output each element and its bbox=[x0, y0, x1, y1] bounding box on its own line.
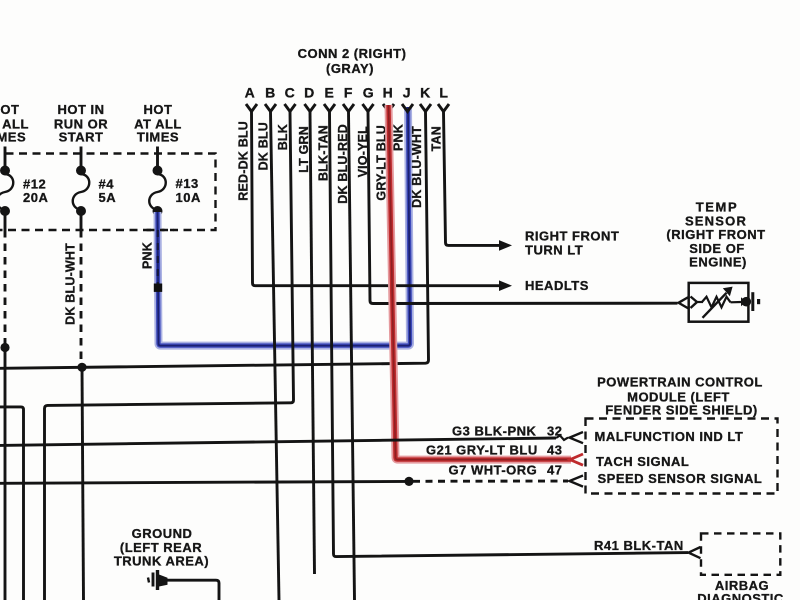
svg-text:TURN LT: TURN LT bbox=[525, 243, 583, 258]
label PNK (rotated, at fuse F13 output) bbox=[141, 242, 155, 269]
wire pin B DK BLU down to bottom bbox=[271, 112, 280, 600]
pin letter E bbox=[325, 85, 335, 101]
pin K connector fork bbox=[420, 104, 431, 112]
wire from left at y407 bending down bbox=[0, 407, 24, 600]
label SPEED SENSOR SIGNAL bbox=[598, 471, 763, 486]
label G21 GRY-LT BLU bbox=[426, 443, 538, 458]
variable resistor diagonal arrow bbox=[703, 287, 733, 318]
fuse F4 symbol bbox=[73, 166, 90, 231]
wire dashed PNK under blue from fuse F13 bbox=[157, 230, 159, 286]
label HOT IN RUN OR START bbox=[54, 102, 108, 145]
label G3 BLK-PNK bbox=[452, 424, 537, 439]
fuse F12 stub above box bbox=[4, 147, 7, 167]
svg-text:K: K bbox=[420, 85, 431, 101]
label R41 BLK-TAN bbox=[594, 538, 684, 553]
svg-text:(RIGHT FRONT: (RIGHT FRONT bbox=[666, 227, 765, 242]
label DK BLU-WHT (rotated, pin K) bbox=[410, 126, 424, 208]
wire pin E BLK-TAN down to R41 feed bbox=[330, 112, 689, 557]
svg-text:HOT IN: HOT IN bbox=[57, 102, 104, 117]
svg-text:32: 32 bbox=[547, 424, 562, 439]
svg-text:START: START bbox=[59, 130, 104, 145]
svg-text:20A: 20A bbox=[23, 190, 48, 205]
pin E connector fork bbox=[324, 104, 335, 112]
fuse block dashed box bbox=[0, 154, 216, 231]
svg-text:G21 GRY-LT BLU: G21 GRY-LT BLU bbox=[426, 443, 538, 458]
pin B connector fork bbox=[265, 104, 276, 112]
connector arrow at temp sensor bbox=[679, 297, 689, 309]
connector arrow at PCM pin 47 bbox=[570, 476, 584, 487]
wire pin G VIO-YEL down then right to temp sensor bbox=[368, 112, 678, 304]
svg-text:5A: 5A bbox=[99, 190, 117, 205]
svg-text:E: E bbox=[325, 85, 335, 101]
temp sensor male pin bbox=[691, 297, 698, 309]
fuse F12 value label #12 20A bbox=[23, 177, 48, 206]
wire fuse box bottom edge over blue bbox=[147, 229, 175, 231]
junction node DK BLU-WHT bbox=[77, 363, 86, 372]
svg-text:#13: #13 bbox=[176, 176, 199, 191]
pin letter H bbox=[383, 85, 394, 101]
pin number 43 bbox=[547, 443, 562, 458]
wire pin A RED-DK BLU down to HEADLTS feed bbox=[252, 112, 500, 286]
label DK BLU (rotated, pin B) bbox=[257, 122, 271, 170]
pin letter L bbox=[439, 85, 448, 101]
wire solid from junction down to bottom bbox=[4, 348, 7, 600]
svg-text:HOT: HOT bbox=[144, 102, 173, 117]
svg-text:TRUNK AREA): TRUNK AREA) bbox=[114, 554, 209, 569]
svg-text:SPEED SENSOR SIGNAL: SPEED SENSOR SIGNAL bbox=[598, 471, 763, 486]
label GROUND (LEFT REAR TRUNK AREA) bbox=[114, 526, 209, 569]
label VIO-YEL (rotated, pin G) bbox=[356, 126, 370, 178]
svg-text:J: J bbox=[403, 85, 411, 101]
pin number 32 bbox=[547, 424, 562, 439]
fuse F4 stub above box bbox=[80, 147, 83, 167]
pin C connector fork bbox=[285, 104, 296, 112]
wire pin F DK BLU-RED down to bottom bbox=[349, 112, 355, 600]
label TAN (rotated, pin L) bbox=[430, 126, 444, 151]
label RED-DK BLU (rotated, pin A) bbox=[237, 121, 251, 201]
temp sensor internal wire right bbox=[731, 301, 742, 303]
fuse F13 value label #13 10A bbox=[176, 176, 201, 205]
pin letter D bbox=[304, 85, 315, 101]
airbag diagnostic dashed box bbox=[701, 533, 780, 574]
svg-text:10A: 10A bbox=[176, 190, 201, 205]
label TEMP SENSOR (RIGHT FRONT SIDE OF ENGINE) bbox=[666, 200, 765, 270]
fuse F4 value label #4 5A bbox=[99, 177, 117, 206]
splice square on PNK wire bbox=[154, 284, 162, 292]
blue highlight PNK circuit fuse F13 to pin J bbox=[158, 107, 411, 346]
temp sensor variable resistor zigzag bbox=[702, 297, 731, 308]
arrow to HEADLTS bbox=[499, 280, 512, 291]
label RIGHT FRONT TURN LT bbox=[525, 229, 619, 258]
svg-text:F: F bbox=[344, 85, 353, 101]
svg-text:DK BLU-WHT: DK BLU-WHT bbox=[64, 243, 78, 325]
fuse F13 stub above box bbox=[156, 147, 159, 167]
label AIRBAG DIAGNOSTIC bbox=[697, 578, 784, 600]
svg-text:R41 BLK-TAN: R41 BLK-TAN bbox=[594, 538, 684, 553]
svg-text:(GRAY): (GRAY) bbox=[326, 61, 374, 76]
svg-text:ENGINE): ENGINE) bbox=[689, 255, 747, 270]
svg-text:MALFUNCTION IND LT: MALFUNCTION IND LT bbox=[595, 429, 744, 444]
wire pin L TAN down then right to turn light bbox=[444, 112, 500, 245]
pin letter K bbox=[420, 85, 431, 101]
wire pin C BLK down, left, down to bottom bbox=[45, 112, 294, 600]
junction node G7 WHT-ORG bbox=[404, 477, 413, 486]
svg-text:TAN: TAN bbox=[430, 126, 444, 151]
squiggle at G3 wire end bbox=[556, 436, 568, 441]
wire dashed from fuse F12 down bbox=[4, 230, 7, 345]
junction node on fuse F12 wire bbox=[0, 343, 9, 352]
pin F connector fork bbox=[343, 104, 354, 112]
label PNK (rotated, pin J) bbox=[392, 124, 406, 151]
label HEADLTS bbox=[525, 278, 589, 293]
connector title CONN 2 (RIGHT) (GRAY) bbox=[298, 46, 407, 76]
pin letter J bbox=[403, 85, 411, 101]
svg-text:DK BLU-WHT: DK BLU-WHT bbox=[410, 126, 424, 208]
svg-text:A: A bbox=[245, 85, 256, 101]
svg-text:C: C bbox=[285, 85, 296, 101]
label POWERTRAIN CONTROL MODULE (LEFT FENDER SIDE SHIELD) bbox=[597, 375, 763, 418]
svg-text:G: G bbox=[363, 85, 375, 101]
arrow to RIGHT FRONT TURN LT bbox=[499, 240, 512, 251]
label MALFUNCTION IND LT bbox=[595, 429, 744, 444]
svg-text:RED-DK BLU: RED-DK BLU bbox=[237, 121, 251, 201]
svg-text:TIMES: TIMES bbox=[137, 130, 179, 145]
ground symbol bbox=[148, 570, 168, 590]
label GRY-LT BLU (rotated, pin H) bbox=[375, 125, 389, 201]
svg-text:TIMES: TIMES bbox=[0, 130, 26, 145]
svg-text:G7 WHT-ORG: G7 WHT-ORG bbox=[449, 463, 538, 478]
pin letter G bbox=[363, 85, 375, 101]
label BLK (rotated, pin C) bbox=[276, 124, 290, 150]
wire pin K DK BLU-WHT down then left to junction bbox=[0, 112, 429, 368]
label DK BLU-WHT (rotated) bbox=[64, 243, 78, 325]
pin L connector fork bbox=[438, 104, 449, 112]
pin G connector fork bbox=[363, 104, 374, 112]
temp sensor right connector blob bbox=[741, 297, 751, 307]
pin J connector fork bbox=[402, 104, 413, 112]
fuse F13 symbol bbox=[149, 166, 166, 217]
pin D connector fork bbox=[305, 104, 316, 112]
label DK BLU-RED (rotated, pin F) bbox=[336, 124, 350, 204]
svg-text:D: D bbox=[304, 85, 315, 101]
pin letter A bbox=[245, 85, 256, 101]
temp sensor internal wire left bbox=[697, 301, 703, 303]
label BLK-TAN (rotated, pin E) bbox=[317, 125, 331, 181]
label G7 WHT-ORG bbox=[449, 463, 538, 478]
svg-text:RIGHT FRONT: RIGHT FRONT bbox=[525, 229, 619, 244]
svg-text:PNK: PNK bbox=[392, 124, 406, 151]
red highlight GRY-LT BLU circuit pin H to PCM tach bbox=[389, 105, 572, 460]
wire dashed DK BLU-WHT from fuse F4 down bbox=[80, 230, 83, 364]
label HOT AT ALL TIMES (third column) bbox=[134, 102, 182, 145]
svg-text:PNK: PNK bbox=[141, 242, 155, 269]
svg-text:G3 BLK-PNK: G3 BLK-PNK bbox=[452, 424, 537, 439]
label HOT AT ALL TIMES (left, clipped) bbox=[0, 102, 29, 145]
wire solid from DK BLU-WHT junction down to bottom bbox=[82, 367, 84, 600]
svg-text:HOT: HOT bbox=[0, 102, 19, 117]
pin number 47 bbox=[547, 463, 562, 478]
pin A connector fork bbox=[246, 104, 257, 112]
temp sensor connector bar and stub bbox=[753, 292, 759, 311]
svg-text:FENDER SIDE SHIELD): FENDER SIDE SHIELD) bbox=[605, 403, 758, 418]
svg-text:CONN 2 (RIGHT): CONN 2 (RIGHT) bbox=[298, 46, 407, 61]
connector arrow into airbag module bbox=[689, 547, 701, 558]
svg-text:HEADLTS: HEADLTS bbox=[525, 278, 589, 293]
label TACH SIGNAL bbox=[596, 454, 689, 469]
svg-text:GROUND: GROUND bbox=[132, 526, 193, 541]
pin H connector fork bbox=[383, 104, 394, 112]
red connector arrow at PCM pin 43 bbox=[570, 454, 583, 465]
svg-text:DK BLU: DK BLU bbox=[257, 122, 271, 170]
ground wire right and down bbox=[166, 580, 219, 600]
connector arrow at PCM pin 32 bbox=[570, 432, 584, 443]
fuse F12 symbol bbox=[0, 166, 13, 231]
svg-text:L: L bbox=[439, 85, 448, 101]
PCM dashed box bbox=[586, 419, 778, 494]
svg-text:DIAGNOSTIC: DIAGNOSTIC bbox=[697, 591, 784, 600]
wire G7 WHT-ORG solid from left bbox=[0, 481, 409, 483]
svg-text:BLK: BLK bbox=[276, 124, 290, 150]
label LT GRN (rotated, pin D) bbox=[297, 126, 311, 173]
svg-text:POWERTRAIN CONTROL: POWERTRAIN CONTROL bbox=[597, 375, 763, 390]
temp sensor box bbox=[689, 283, 749, 322]
pin letter C bbox=[285, 85, 296, 101]
wire G3 BLK-PNK to PCM pin 32 bbox=[0, 438, 556, 445]
wire pin D LT GRN down bbox=[310, 112, 315, 574]
svg-text:TEMP: TEMP bbox=[696, 200, 739, 215]
svg-text:47: 47 bbox=[547, 463, 562, 478]
svg-text:43: 43 bbox=[547, 443, 562, 458]
svg-text:B: B bbox=[265, 85, 276, 101]
svg-text:TACH SIGNAL: TACH SIGNAL bbox=[596, 454, 689, 469]
pin letter F bbox=[344, 85, 353, 101]
pin letter B bbox=[265, 85, 276, 101]
svg-text:H: H bbox=[383, 85, 394, 101]
wire G7 WHT-ORG dashed to PCM pin 47 bbox=[413, 480, 568, 483]
